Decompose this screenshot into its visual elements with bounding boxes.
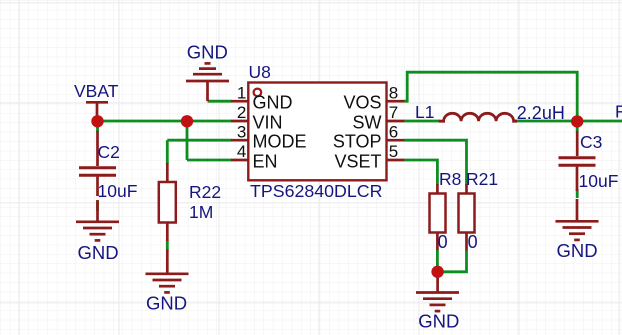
ground at pin 1 (flipped GND symbol) — [186, 41, 229, 101]
ic body — [248, 83, 386, 181]
wire MODE to R22 — [167, 140, 231, 164]
svg-text:EN: EN — [253, 151, 278, 171]
svg-text:8: 8 — [389, 83, 398, 102]
svg-text:0: 0 — [438, 232, 448, 252]
svg-text:SW: SW — [353, 112, 382, 132]
svg-text:C3: C3 — [580, 132, 602, 152]
pin 3 stub — [231, 139, 248, 142]
capacitor C3 — [559, 131, 619, 191]
svg-text:2.2uH: 2.2uH — [517, 103, 565, 123]
svg-text:FB: FB — [615, 102, 622, 122]
wire VBAT to VIN (pin 2 net) — [98, 120, 232, 123]
svg-text:VIN: VIN — [253, 112, 283, 132]
junction VBAT/C2 on VIN net — [91, 115, 103, 127]
svg-text:L1: L1 — [415, 102, 434, 122]
svg-text:0: 0 — [468, 232, 478, 252]
wire R21 bottom to ground junction — [437, 250, 466, 272]
wire C3 top — [576, 121, 579, 132]
svg-text:6: 6 — [389, 122, 398, 141]
pin 2 stub — [231, 120, 248, 123]
wire VSET to R8 — [404, 160, 438, 185]
ic U8 TPS62840DLCR — [231, 62, 404, 201]
svg-text:MODE: MODE — [253, 132, 307, 152]
pin 1 marker — [254, 89, 262, 97]
svg-text:10uF: 10uF — [98, 181, 138, 201]
inductor L1 — [415, 102, 565, 123]
svg-text:R22: R22 — [189, 182, 221, 202]
svg-text:5: 5 — [389, 142, 398, 161]
ground under C3 — [556, 199, 599, 261]
svg-text:VSET: VSET — [334, 151, 381, 171]
svg-text:C2: C2 — [98, 142, 120, 162]
svg-text:R21: R21 — [466, 169, 498, 189]
svg-text:3: 3 — [237, 122, 246, 141]
svg-text:GND: GND — [253, 93, 293, 113]
svg-text:10uF: 10uF — [579, 171, 619, 191]
wire C3 bottom — [576, 189, 579, 198]
resistor R8 — [430, 169, 462, 252]
svg-text:7: 7 — [389, 103, 398, 122]
svg-text:STOP: STOP — [333, 132, 382, 152]
wire R8 bottom to ground junction — [436, 250, 439, 272]
pin 1 stub — [231, 100, 248, 103]
resistor R21 — [459, 169, 499, 252]
capacitor C2 — [79, 131, 137, 201]
svg-text:R8: R8 — [439, 169, 461, 189]
pin 4 stub — [231, 159, 248, 162]
pin 6 stub — [387, 139, 405, 142]
svg-text:1: 1 — [237, 83, 246, 102]
wire VIN junction down to EN — [187, 121, 232, 160]
ground under R8/R21 — [416, 272, 459, 332]
wire STOP to R21 — [404, 140, 467, 185]
svg-text:4: 4 — [237, 142, 246, 161]
net label FB (clipped at right edge) — [615, 102, 622, 122]
resistor R22 — [159, 163, 221, 241]
wire C2 bottom — [96, 202, 99, 212]
svg-text:GND: GND — [556, 240, 597, 261]
wire SW to L1 — [404, 120, 441, 123]
junction EN tap on VIN net — [181, 115, 193, 127]
pin 5 stub — [387, 159, 405, 162]
wire C2 top — [96, 121, 99, 132]
svg-text:TPS62840DLCR: TPS62840DLCR — [250, 181, 383, 201]
svg-text:2: 2 — [237, 103, 246, 122]
svg-text:GND: GND — [418, 311, 459, 332]
junction R8/R21 ground — [431, 266, 443, 278]
wire R22 bottom — [166, 241, 169, 251]
svg-text:GND: GND — [77, 242, 118, 263]
svg-text:GND: GND — [146, 292, 187, 313]
ground under C2 — [76, 200, 119, 263]
pin 7 stub — [387, 120, 405, 123]
svg-text:1M: 1M — [189, 202, 213, 222]
svg-text:VBAT: VBAT — [74, 81, 119, 101]
wire GND to pin 1 — [208, 100, 232, 103]
svg-text:U8: U8 — [249, 62, 271, 82]
junction L1 output / C3 / feedback — [571, 115, 583, 127]
power port VBAT — [74, 81, 119, 119]
ground under R22 — [146, 250, 189, 314]
pin 8 stub — [387, 100, 405, 103]
svg-text:GND: GND — [187, 41, 228, 62]
svg-text:VOS: VOS — [343, 93, 381, 113]
wire VOS pin 8 feedback loop — [404, 72, 577, 121]
wire L1 to output — [515, 120, 622, 123]
